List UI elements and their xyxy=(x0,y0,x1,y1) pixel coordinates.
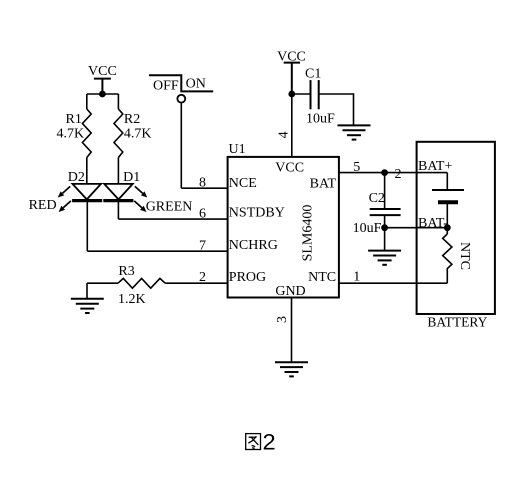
svg-text:6: 6 xyxy=(199,206,206,221)
svg-text:4.7K: 4.7K xyxy=(57,126,85,141)
IC U1 box xyxy=(228,157,339,298)
ground (below IC GND) xyxy=(275,362,308,376)
svg-text:BAT-: BAT- xyxy=(418,216,448,231)
svg-text:NSTDBY: NSTDBY xyxy=(229,206,285,221)
svg-text:4: 4 xyxy=(276,131,291,138)
svg-text:2: 2 xyxy=(395,167,402,182)
junction dot battery/NTC node xyxy=(444,224,451,231)
wire pin3 GND vertical xyxy=(291,298,293,363)
svg-text:VCC: VCC xyxy=(277,50,306,65)
wire battery top lead xyxy=(446,173,448,190)
junction dot BAT/C2 node xyxy=(381,169,388,176)
ground (below C1) xyxy=(338,125,371,139)
D2 emission arrow 1 xyxy=(58,186,70,197)
wire pin5 BAT horizontal xyxy=(339,172,447,174)
wire pin6 NSTDBY horizontal xyxy=(118,218,227,220)
wire R2 top lead xyxy=(117,94,119,109)
wire C2 top lead xyxy=(384,173,386,209)
svg-text:NCE: NCE xyxy=(229,176,257,191)
power VCC symbol (left) xyxy=(94,79,111,94)
power VCC symbol (top middle) xyxy=(284,63,300,94)
battery box xyxy=(417,142,495,314)
svg-text:BATTERY: BATTERY xyxy=(427,315,487,330)
svg-text:OFF: OFF xyxy=(153,78,179,93)
wire pin8 NCE horizontal xyxy=(181,187,227,189)
svg-text:SLM6400: SLM6400 xyxy=(301,205,316,262)
svg-text:10uF: 10uF xyxy=(306,112,335,127)
svg-text:GND: GND xyxy=(275,284,305,299)
svg-text:2: 2 xyxy=(199,270,206,285)
svg-text:NTC: NTC xyxy=(457,242,472,270)
wire pin4 vertical xyxy=(291,94,293,157)
wire NTC top lead xyxy=(446,228,448,234)
svg-text:VCC: VCC xyxy=(88,64,117,79)
junction dot C2/BAT- node xyxy=(381,224,388,231)
svg-text:ON: ON xyxy=(186,76,206,91)
LED D1 xyxy=(103,184,133,201)
wire C1 left lead xyxy=(292,93,311,95)
wire VCC split horizontal xyxy=(87,93,119,95)
svg-text:BAT+: BAT+ xyxy=(418,159,452,174)
svg-text:C2: C2 xyxy=(369,191,385,206)
wire R2 bottom lead xyxy=(117,158,119,185)
wire D1 cathode down to pin6 row xyxy=(117,201,119,220)
ground (below R3) xyxy=(71,299,104,313)
resistor R2 xyxy=(114,109,123,158)
svg-text:4.7K: 4.7K xyxy=(124,126,152,141)
svg-text:8: 8 xyxy=(199,176,206,191)
svg-text:C1: C1 xyxy=(305,67,321,82)
wire R1 top lead xyxy=(86,94,88,109)
wire pin1 NTC horizontal xyxy=(339,282,447,284)
junction dot VCC/C1 node xyxy=(288,91,295,98)
resistor NTC (thermistor) xyxy=(443,234,452,283)
wire D2 cathode down to pin7 row xyxy=(86,201,88,252)
wire R3 left lead xyxy=(87,282,118,284)
svg-text:VCC: VCC xyxy=(275,161,304,176)
switch OFF/ON xyxy=(149,75,213,102)
svg-text:R1: R1 xyxy=(66,112,82,127)
caption 图2 xyxy=(246,430,276,455)
svg-text:U1: U1 xyxy=(229,142,246,157)
battery cell symbol xyxy=(432,190,464,202)
svg-text:3: 3 xyxy=(275,316,290,323)
svg-text:PROG: PROG xyxy=(229,270,266,285)
svg-text:RED: RED xyxy=(29,198,57,213)
wire R1 bottom lead xyxy=(86,158,88,185)
wire pin7 NCHRG horizontal xyxy=(87,250,227,252)
wire BAT- horizontal xyxy=(385,227,448,229)
D1 emission arrow 2 xyxy=(134,201,146,212)
svg-text:D1: D1 xyxy=(123,170,140,185)
resistor R3 xyxy=(118,278,165,288)
svg-text:7: 7 xyxy=(199,239,206,254)
capacitor C1 xyxy=(311,80,319,109)
svg-text:10uF: 10uF xyxy=(353,221,382,236)
wire R3 to ground xyxy=(86,283,88,299)
wire pin2 PROG horizontal xyxy=(165,282,227,284)
D1 emission arrow 1 xyxy=(135,186,147,197)
svg-text:R2: R2 xyxy=(124,112,140,127)
capacitor C2 xyxy=(370,209,401,215)
svg-text:R3: R3 xyxy=(118,264,134,279)
wire C1 right lead xyxy=(319,94,354,125)
LED D2 xyxy=(72,184,102,201)
wire battery bottom lead xyxy=(446,202,448,228)
svg-text:1.2K: 1.2K xyxy=(118,292,146,307)
wire C2 bottom lead xyxy=(384,215,386,251)
svg-text:D2: D2 xyxy=(68,170,85,185)
svg-text:BAT: BAT xyxy=(310,177,337,192)
resistor R1 xyxy=(82,109,91,158)
svg-text:2: 2 xyxy=(263,430,276,455)
svg-text:GREEN: GREEN xyxy=(146,199,193,214)
D2 emission arrow 2 xyxy=(59,201,71,212)
ground (below C2) xyxy=(368,251,401,265)
svg-text:NCHRG: NCHRG xyxy=(229,238,278,253)
svg-text:NTC: NTC xyxy=(308,270,336,285)
wire switch to pin8 xyxy=(180,102,182,188)
junction dot VCC node xyxy=(99,91,106,98)
